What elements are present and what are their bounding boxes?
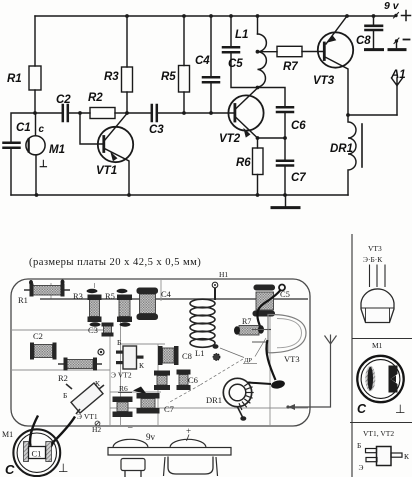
transistor VT2: [228, 95, 263, 130]
PCB resistor R5: [105, 289, 132, 327]
svg-text:R6: R6: [236, 157, 251, 169]
inductor L1: [258, 34, 267, 87]
svg-text:М1: М1: [372, 341, 383, 350]
wire: C3 to VT2 base: [158, 112, 234, 114]
node: VT1 collector junction: [125, 111, 129, 115]
terminal: battery minus: [395, 39, 398, 42]
node: R5 bottom junction: [182, 111, 186, 115]
svg-text:C8: C8: [356, 35, 371, 47]
pinout VT3: [361, 244, 394, 323]
PCB inductor L1 coil: [190, 299, 219, 358]
svg-text:R7: R7: [242, 317, 251, 326]
svg-text:–: –: [127, 422, 133, 432]
capacitor C5: [223, 47, 239, 52]
PCB resistor R2: [58, 358, 102, 384]
svg-text:VT1, VT2: VT1, VT2: [363, 429, 394, 438]
transistor VT1: [80, 113, 102, 144]
node: input node junction: [33, 111, 37, 115]
schematic reference labels: [7, 0, 406, 184]
svg-text:ДР: ДР: [244, 357, 252, 364]
svg-text:C6: C6: [291, 120, 306, 132]
svg-text:C6: C6: [188, 375, 198, 385]
svg-text:⊥: ⊥: [58, 461, 68, 475]
wire: input node to C1 branch: [11, 113, 35, 141]
PCB transistor VT3 outline: [252, 314, 306, 364]
PCB board outline: [11, 279, 310, 426]
capacitor C8: [373, 16, 375, 25]
ground symbol below rail: [285, 195, 287, 206]
wire: C4 bottom: [210, 83, 212, 113]
node: C4 bottom junction: [209, 111, 213, 115]
PCB microphone M1: [2, 416, 75, 477]
svg-text:9v: 9v: [146, 432, 156, 442]
PCB resistor R3: [73, 289, 102, 327]
svg-text:Б: Б: [117, 338, 121, 347]
sidebar dividers: [350, 234, 412, 477]
wire: rail drop to R3: [126, 16, 128, 67]
svg-text:VT2: VT2: [219, 133, 241, 145]
svg-text:C: C: [5, 462, 15, 477]
node: VT1 emitter ground dot: [127, 193, 131, 197]
PCB node ring: [98, 349, 104, 355]
wire: ground bottom rail: [11, 194, 348, 196]
PCB leader label BR: [168, 338, 266, 403]
svg-text:⊥: ⊥: [39, 159, 48, 170]
wire: collector node to C3: [127, 112, 151, 114]
svg-text:R5: R5: [161, 71, 176, 83]
wire: L1 tap to R7: [258, 51, 278, 53]
node: M1 ground dot: [35, 193, 39, 197]
node: rail dot C5: [229, 14, 233, 18]
svg-text:DR1: DR1: [330, 143, 353, 155]
node: rail dot L1: [256, 14, 260, 18]
svg-text:R3: R3: [104, 71, 119, 83]
svg-text:VT1: VT1: [96, 165, 117, 177]
svg-text:R3: R3: [73, 291, 83, 301]
wire: left drop from rail to R1: [34, 16, 36, 66]
PCB capacitor C8: [158, 346, 192, 365]
node: rail dot R5: [182, 14, 186, 18]
svg-text:L1: L1: [195, 348, 204, 358]
wire: +9V top rail: [35, 15, 394, 17]
antenna A1: [392, 78, 403, 86]
svg-text:M1: M1: [2, 430, 13, 439]
PCB antenna: [286, 335, 336, 411]
ground: C8 bottom bar: [366, 48, 383, 51]
wire: rail drop to R5: [183, 16, 185, 66]
svg-text:R2: R2: [58, 373, 68, 383]
svg-text:VT3: VT3: [284, 354, 300, 364]
svg-text:C: C: [357, 402, 367, 416]
capacitor C4: [203, 77, 219, 82]
PCB terminal H2: [92, 421, 101, 434]
PCB knurled node: [213, 354, 220, 361]
svg-text:R5: R5: [105, 291, 115, 301]
resistor R2: [90, 108, 115, 119]
battery 9v strip: [108, 422, 231, 477]
svg-text:C4: C4: [195, 55, 210, 67]
capacitor C3: [152, 105, 157, 121]
node: C2/R2/base junction: [78, 111, 82, 115]
svg-text:C4: C4: [161, 289, 172, 299]
PCB capacitor C4: [137, 288, 172, 321]
node: rail dot R3: [125, 14, 129, 18]
svg-text:M1: M1: [49, 144, 65, 156]
node: tank node (L1 bottom): [256, 86, 260, 90]
wire: C2 to R2 node: [69, 112, 90, 114]
svg-text:C5: C5: [228, 58, 243, 70]
resistor R3: [122, 67, 133, 92]
svg-text:L1: L1: [235, 29, 248, 41]
wire: C5 bottom to tank node: [231, 53, 258, 87]
wire: rail drop to L1: [257, 16, 259, 34]
svg-text:Б: Б: [357, 441, 361, 450]
svg-text:C3: C3: [149, 124, 164, 136]
capacitor C6: [258, 88, 286, 107]
svg-text:C1: C1: [16, 122, 31, 134]
svg-text:R1: R1: [7, 73, 22, 85]
svg-text:C1: C1: [32, 449, 42, 459]
PCB traces: [11, 279, 308, 425]
svg-text:Э·Б·К: Э·Б·К: [363, 255, 383, 264]
svg-text:R1: R1: [18, 295, 28, 305]
wire: R7 to VT3 base: [302, 51, 323, 53]
resistor R1: [29, 66, 41, 90]
pinout M1: [357, 341, 405, 416]
PCB transistor VT1: [63, 379, 104, 421]
PCB resistor R1: [18, 280, 70, 306]
PCB transistor VT2: [111, 338, 151, 397]
resistor R7: [277, 46, 302, 56]
transistor VT3: [318, 32, 353, 67]
node: antenna node: [346, 113, 350, 117]
node: VT2 emitter junction: [256, 136, 260, 140]
svg-text:C7: C7: [291, 172, 306, 184]
capacitor C1: [4, 143, 20, 148]
svg-text:VT3: VT3: [368, 244, 382, 253]
PCB capacitor C2: [30, 331, 57, 360]
svg-text:Э VT2: Э VT2: [111, 371, 132, 380]
node: C6/C7 junction: [283, 136, 287, 140]
svg-text:H1: H1: [219, 270, 228, 279]
wire: input node to C2: [35, 112, 62, 114]
PCB capacitor C3: [88, 323, 114, 337]
svg-text:C3: C3: [88, 325, 98, 335]
svg-text:C2: C2: [33, 331, 43, 341]
svg-text:H2: H2: [92, 425, 101, 434]
node: C7 ground dot: [283, 193, 287, 197]
svg-text:+: +: [186, 426, 191, 436]
svg-text:Э: Э: [359, 463, 364, 472]
node: R6 ground dot: [256, 193, 260, 197]
inductor DR1: [348, 115, 356, 195]
wire: R1 bottom to input node: [34, 90, 36, 113]
svg-text:DR1: DR1: [206, 395, 222, 405]
svg-text:c: c: [39, 124, 45, 135]
terminal: +9V: [394, 14, 397, 17]
node: rail dot C4: [209, 14, 213, 18]
wire: emitter node to C6/C7: [258, 137, 286, 139]
svg-text:9 v: 9 v: [384, 0, 400, 12]
svg-text:C8: C8: [182, 351, 192, 361]
svg-text:A1: A1: [390, 69, 406, 81]
PCB resistor R7: [234, 317, 271, 335]
pinout VT1 VT2: [357, 429, 410, 472]
svg-text:(размеры платы 20 х 42,5 х 0,5: (размеры платы 20 х 42,5 х 0,5 мм): [29, 257, 201, 268]
wire: R3 bottom to collector node: [126, 92, 128, 113]
wire: C1 bottom to ground rail: [10, 149, 12, 195]
ground: minus terminal bar: [389, 48, 405, 51]
wire: R5 bottom: [183, 92, 185, 113]
svg-text:R2: R2: [88, 92, 103, 104]
PCB capacitor pair C7: [113, 393, 174, 417]
resistor R6: [257, 138, 259, 148]
svg-text:C2: C2: [56, 94, 71, 106]
svg-text:Э VT1: Э VT1: [77, 412, 98, 421]
svg-text:VT3: VT3: [313, 75, 335, 87]
PCB wire: DR1 to solder blob: [248, 340, 286, 390]
node: VT3 collector rail dot: [345, 14, 349, 18]
PCB terminal H1: [212, 270, 228, 300]
capacitor C2: [63, 105, 68, 121]
svg-text:⊥: ⊥: [395, 402, 405, 416]
node: L1 tap: [256, 50, 260, 54]
wire: VT3 collector to antenna node: [348, 114, 397, 116]
wire: rail drop to C4: [210, 16, 212, 76]
resistor R5: [179, 66, 190, 93]
svg-text:R6: R6: [119, 384, 128, 393]
PCB wire: ring terminal and lead to R7: [257, 285, 285, 333]
microphone M1: [35, 113, 37, 136]
svg-text:R7: R7: [283, 61, 298, 73]
wire: R2 to collector node: [115, 112, 127, 114]
capacitor C7: [284, 138, 286, 160]
svg-text:Б: Б: [63, 391, 67, 400]
PCB capacitor C6: [154, 370, 198, 391]
wire: rail drop to C5: [230, 16, 232, 46]
PCB inductor DR1 toroid: [206, 378, 254, 421]
PCB capacitor C5: [253, 285, 290, 317]
svg-text:C7: C7: [164, 404, 174, 414]
